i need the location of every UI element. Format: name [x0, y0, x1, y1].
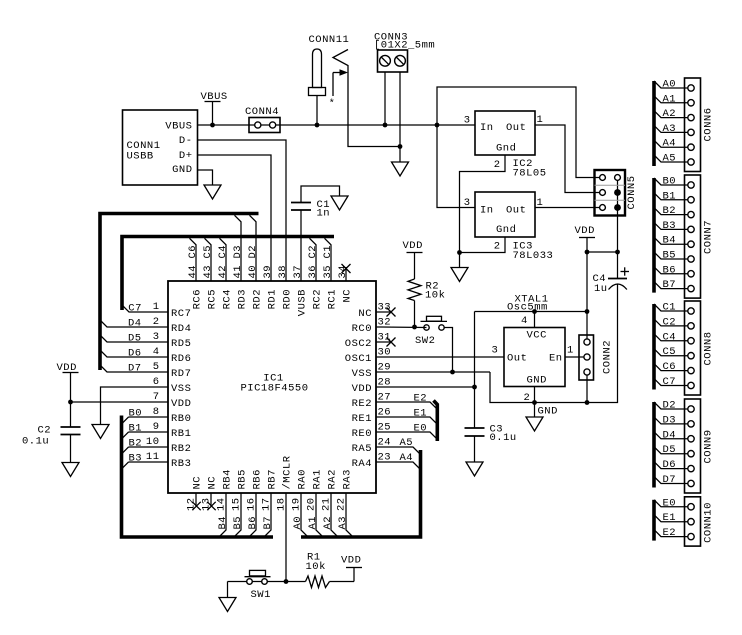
wire IC2 out to CONN5 pin3	[535, 125, 600, 193]
svg-text:B6: B6	[247, 516, 259, 530]
connector CONN10	[654, 497, 715, 546]
svg-text:5: 5	[153, 361, 160, 373]
bus B (thick)	[122, 416, 274, 538]
svg-text:3: 3	[492, 345, 499, 357]
wire/node D4 pin2	[100, 318, 168, 330]
wire/node B2 pin10	[122, 438, 169, 455]
svg-text:42: 42	[217, 265, 229, 279]
ground (CONN3/CONN11)	[392, 162, 409, 176]
wire VBUS to IC3 in	[437, 125, 475, 208]
svg-text:CONN5: CONN5	[626, 175, 638, 209]
power symbol VBUS	[201, 91, 228, 125]
wire VSS pin29	[376, 371, 490, 373]
svg-text:C7: C7	[663, 376, 677, 388]
wire/node A4 pin23	[376, 452, 421, 470]
svg-text:VBUS: VBUS	[165, 121, 192, 133]
svg-text:VDD: VDD	[352, 383, 372, 395]
wire/node B1 pin9	[122, 423, 169, 440]
connector CONN2	[579, 335, 614, 403]
wire VCC rail (XTAL)	[475, 312, 588, 328]
wire/node A3 pin22	[337, 493, 353, 537]
svg-text:1: 1	[567, 345, 574, 357]
svg-text:B3: B3	[129, 453, 143, 465]
junction CONN11 pin	[315, 123, 320, 128]
bus D (thick)	[100, 214, 259, 371]
svg-text:A0: A0	[292, 516, 304, 530]
wire/node E2 pin27	[376, 393, 437, 410]
svg-text:RB3: RB3	[171, 458, 191, 470]
svg-text:OSC2: OSC2	[345, 338, 372, 350]
svg-text:D6: D6	[128, 348, 142, 360]
wire/node B6 pin16	[247, 493, 259, 537]
junction VDD/C4	[585, 250, 620, 255]
wire/node A1 pin20	[307, 493, 323, 537]
svg-text:RB1: RB1	[171, 428, 191, 440]
ground (IC2/IC3)	[451, 268, 468, 282]
svg-text:In: In	[480, 205, 494, 217]
capacitor C3 0.1u	[465, 424, 517, 463]
svg-text:40: 40	[247, 265, 259, 279]
connector CONN11 (power jack)	[309, 34, 401, 147]
svg-text:USBB: USBB	[127, 151, 154, 163]
IC1 bottom pin numbers 12-22	[186, 497, 348, 511]
svg-text:SW2: SW2	[415, 335, 435, 347]
connector CONN3 [01X2_5mm	[374, 32, 435, 147]
svg-text:In: In	[480, 122, 494, 134]
wire to ground (CONN3)	[399, 147, 401, 163]
svg-text:A0: A0	[663, 79, 677, 91]
ground (C3)	[466, 462, 483, 476]
connector CONN8	[654, 301, 715, 395]
wire/node D5 pin3	[100, 333, 168, 345]
svg-text:B1: B1	[129, 423, 143, 435]
microcontroller IC1 PIC18F4550	[168, 281, 376, 493]
svg-text:1n: 1n	[317, 208, 331, 220]
svg-text:B7: B7	[262, 516, 274, 530]
svg-text:A2: A2	[663, 108, 677, 120]
svg-text:Out: Out	[506, 205, 526, 217]
connector CONN4	[245, 106, 280, 133]
IC1 left pin names	[171, 308, 191, 470]
svg-text:1u: 1u	[594, 283, 608, 295]
wire/node C1 (top)	[322, 238, 334, 281]
junction XTAL vcc	[532, 309, 589, 314]
svg-text:*: *	[329, 98, 336, 110]
svg-text:CONN2: CONN2	[602, 340, 614, 374]
wire/node B4 pin14	[217, 493, 229, 537]
svg-text:RB4: RB4	[222, 469, 234, 489]
svg-text:C6: C6	[187, 245, 199, 259]
wire/node E0 pin25	[376, 423, 437, 440]
wire VDD pin7	[71, 401, 169, 403]
power symbol VDD (left)	[57, 362, 79, 402]
svg-text:VCC: VCC	[527, 330, 547, 342]
svg-text:CONN9: CONN9	[703, 429, 715, 463]
svg-text:E1: E1	[414, 408, 428, 420]
svg-text:CONN6: CONN6	[703, 107, 715, 141]
svg-text:B4: B4	[217, 516, 229, 530]
svg-text:RC6: RC6	[192, 289, 204, 309]
svg-text:RD1: RD1	[267, 289, 279, 309]
IC1 top pin numbers 44-34	[187, 265, 349, 279]
wire VBUS to CONN5 pin1	[437, 87, 600, 178]
wire/node C6 (top)	[187, 238, 199, 281]
svg-text:B5: B5	[663, 250, 677, 262]
svg-text:35: 35	[322, 265, 334, 279]
svg-text:78L033: 78L033	[513, 250, 554, 262]
svg-text:OSC1: OSC1	[345, 353, 372, 365]
svg-text:A3: A3	[663, 123, 677, 135]
power symbol VDD (R1)	[341, 555, 362, 568]
svg-text:D5: D5	[128, 333, 142, 345]
junction VDD/C2	[68, 400, 73, 405]
svg-text:Gnd: Gnd	[496, 143, 516, 155]
svg-text:RA5: RA5	[352, 443, 372, 455]
IC1 bottom pin names	[192, 455, 354, 489]
svg-text:VDD: VDD	[575, 225, 595, 237]
wire/node E1 pin26	[376, 408, 437, 425]
svg-text:A1: A1	[663, 93, 677, 105]
wire VDD drop to pin28/C3	[474, 312, 476, 429]
wire CONN1 GND	[198, 170, 213, 185]
switch SW1	[228, 570, 287, 601]
junction CONN3 pin2 / jack switch	[398, 144, 403, 149]
no-connect pin33	[376, 308, 396, 317]
svg-text:D2: D2	[663, 400, 677, 412]
svg-text:VSS: VSS	[352, 368, 372, 380]
svg-text:A3: A3	[337, 516, 349, 530]
ground (SW1)	[219, 598, 236, 612]
junction VBUS feed node	[435, 123, 440, 128]
regulator IC3 78L033	[464, 192, 554, 262]
svg-text:B2: B2	[663, 205, 677, 217]
svg-text:RD4: RD4	[171, 323, 191, 335]
no-connect pin34	[342, 264, 351, 281]
svg-text:En: En	[549, 353, 563, 365]
svg-text:2: 2	[494, 159, 501, 171]
wire VDD pin28	[376, 386, 475, 388]
capacitor C2 0.1u	[22, 402, 81, 463]
svg-text:A5: A5	[400, 437, 414, 449]
svg-text:C5: C5	[663, 346, 677, 358]
svg-text:Gnd: Gnd	[496, 224, 516, 236]
svg-text:4: 4	[153, 346, 160, 358]
svg-text:B7: B7	[663, 279, 677, 291]
svg-text:RE0: RE0	[352, 428, 372, 440]
svg-text:1: 1	[537, 114, 544, 126]
svg-text:RA4: RA4	[352, 458, 372, 470]
svg-text:A5: A5	[663, 153, 677, 165]
svg-text:3: 3	[153, 331, 160, 343]
no-connect pin12	[192, 493, 200, 510]
svg-text:GND: GND	[527, 375, 547, 387]
svg-text:B6: B6	[663, 264, 677, 276]
svg-text:B4: B4	[663, 235, 677, 247]
svg-text:E2: E2	[414, 393, 428, 405]
IC1 top pin names	[192, 289, 354, 316]
svg-text:B1: B1	[663, 190, 677, 202]
wire VDD to C4	[587, 251, 618, 253]
svg-text:A4: A4	[663, 138, 677, 150]
svg-text:VDD: VDD	[403, 240, 423, 252]
resistor R2 10k	[408, 279, 445, 327]
bus E (thick)	[434, 401, 438, 442]
svg-text:CONN4: CONN4	[245, 106, 279, 118]
wire/node D2 (top)	[247, 215, 259, 281]
svg-text:C4: C4	[217, 245, 229, 259]
svg-text:11: 11	[146, 451, 160, 463]
junction CONN3 pin1	[383, 123, 388, 128]
svg-text:CONN8: CONN8	[703, 331, 715, 365]
wire/node D7 pin5	[100, 363, 168, 375]
svg-text:RC7: RC7	[171, 308, 191, 320]
svg-text:VDD: VDD	[341, 555, 361, 567]
svg-text:2: 2	[524, 392, 531, 404]
bus A (thick)	[301, 450, 421, 537]
capacitor C1 1n (VUSB)	[291, 186, 340, 281]
connector CONN5	[595, 170, 639, 279]
bus D (thick)	[652, 402, 656, 488]
wire/node D6 pin4	[100, 348, 168, 360]
svg-text:CONN11: CONN11	[309, 34, 350, 46]
capacitor C4 1u (polarized)	[593, 267, 630, 295]
wire VBUS rail	[198, 124, 476, 126]
svg-text:E1: E1	[663, 512, 677, 524]
svg-text:2: 2	[494, 241, 501, 253]
svg-text:NC: NC	[192, 476, 204, 490]
junction R2/RC0	[412, 325, 417, 330]
svg-text:C2: C2	[663, 316, 677, 328]
svg-text:C4: C4	[663, 331, 677, 343]
svg-text:RB0: RB0	[171, 413, 191, 425]
svg-text:9: 9	[153, 421, 160, 433]
svg-text:78L05: 78L05	[513, 168, 547, 180]
svg-text:A1: A1	[307, 516, 319, 530]
svg-text:D2: D2	[247, 245, 259, 259]
ground (VSS pin6)	[92, 425, 109, 439]
regulator IC2 78L05	[464, 111, 547, 180]
svg-text:0.1u: 0.1u	[490, 432, 517, 444]
svg-text:8: 8	[153, 406, 160, 418]
svg-text:RD2: RD2	[252, 289, 264, 309]
IC1 right pin names	[345, 308, 372, 470]
svg-text:SW1: SW1	[251, 589, 271, 601]
wire /MCLR pin18	[285, 493, 287, 582]
svg-text:10: 10	[146, 436, 160, 448]
svg-text:C1: C1	[663, 302, 677, 314]
junction VDD pin28	[472, 385, 477, 390]
svg-text:D3: D3	[663, 414, 677, 426]
bus C (thick)	[122, 237, 334, 311]
svg-text:10k: 10k	[425, 290, 445, 302]
ground (C2)	[62, 463, 79, 477]
svg-text:RC1: RC1	[327, 289, 339, 309]
wire D-	[198, 140, 287, 281]
svg-text:A2: A2	[322, 516, 334, 530]
IC1 left pin numbers 1-11	[146, 301, 160, 463]
connector CONN6	[654, 78, 715, 172]
svg-text:RA1: RA1	[312, 469, 324, 489]
svg-text:D7: D7	[128, 363, 142, 375]
svg-text:C6: C6	[663, 361, 677, 373]
junction XTAL pin2	[532, 400, 537, 405]
wire/node B0 pin8	[122, 408, 169, 425]
resistor R1 10k	[286, 552, 354, 588]
svg-text:RC5: RC5	[207, 289, 219, 309]
svg-text:Out: Out	[507, 353, 527, 365]
wire XTAL en to CONN2	[565, 356, 587, 358]
svg-text:RE2: RE2	[352, 398, 372, 410]
switch SW2	[415, 316, 453, 372]
wire/node B3 pin11	[122, 453, 169, 470]
svg-text:B0: B0	[129, 408, 143, 420]
wire/node B7 pin17	[262, 493, 274, 537]
svg-text:43: 43	[202, 265, 214, 279]
svg-text:VSS: VSS	[171, 383, 191, 395]
svg-text:NC: NC	[358, 308, 372, 320]
connector CONN1 USBB	[123, 110, 198, 185]
svg-text:RB6: RB6	[252, 469, 264, 489]
svg-text:E0: E0	[414, 423, 428, 435]
no-connect pin31 OSC2	[376, 338, 396, 347]
connector CONN7	[654, 175, 715, 298]
svg-text:C1: C1	[322, 245, 334, 259]
wire/node C7 pin1	[122, 303, 168, 315]
svg-text:10k: 10k	[306, 561, 326, 573]
svg-text:6: 6	[153, 376, 160, 388]
svg-text:D+: D+	[179, 150, 193, 162]
junction SW2 gnd/VSS	[450, 370, 455, 375]
wire IC3 gnd	[460, 237, 506, 253]
connector CONN9	[654, 399, 715, 493]
wire/node B5 pin15	[232, 493, 244, 537]
svg-text:RD7: RD7	[171, 368, 191, 380]
svg-text:D4: D4	[128, 318, 142, 330]
svg-text:0.1u: 0.1u	[22, 436, 49, 448]
wire XTAL gnd pin2	[534, 387, 536, 418]
svg-text:E2: E2	[663, 527, 677, 539]
svg-text:D7: D7	[663, 474, 677, 486]
svg-text:44: 44	[187, 265, 199, 279]
svg-text:RD0: RD0	[282, 289, 294, 309]
svg-text:GND: GND	[538, 406, 558, 418]
svg-text:NC: NC	[342, 289, 354, 303]
wire/node C4 (top)	[217, 238, 229, 281]
svg-text:RB7: RB7	[267, 469, 279, 489]
svg-text:RB2: RB2	[171, 443, 191, 455]
wire C4 to gnd rail	[490, 285, 618, 403]
wire/node A2 pin21	[322, 493, 338, 537]
svg-text:7: 7	[153, 391, 160, 403]
svg-text:B5: B5	[232, 516, 244, 530]
label GND net	[538, 406, 558, 418]
bus B (thick)	[652, 178, 656, 293]
svg-text:4: 4	[521, 315, 528, 327]
svg-text:RA2: RA2	[327, 469, 339, 489]
wire/node A5 pin24	[376, 437, 421, 455]
svg-text:E0: E0	[663, 497, 677, 509]
power symbol VDD (R2)	[403, 240, 423, 279]
svg-text:VDD: VDD	[171, 398, 191, 410]
svg-text:RC2: RC2	[312, 289, 324, 309]
no-connect pin13	[207, 493, 215, 510]
svg-text:B3: B3	[663, 220, 677, 232]
ground (CONN1)	[204, 185, 221, 199]
svg-text:RD3: RD3	[237, 289, 249, 309]
junction MCLR/SW1/R1	[284, 579, 289, 584]
svg-text:C7: C7	[128, 303, 142, 315]
svg-text:PIC18F4550: PIC18F4550	[240, 383, 308, 395]
svg-text:RB5: RB5	[237, 469, 249, 489]
wire IC2 gnd	[460, 155, 506, 268]
bus E (thick)	[652, 500, 656, 541]
svg-text:41: 41	[232, 265, 244, 279]
svg-text:36: 36	[307, 265, 319, 279]
wire RC0 pin32 to SW2	[376, 326, 427, 329]
wire OSC1 pin30 to XTAL out	[376, 356, 504, 358]
svg-text:D5: D5	[663, 444, 677, 456]
svg-text:1: 1	[153, 301, 160, 313]
svg-text:38: 38	[277, 265, 289, 279]
power symbol VDD (CONN5 area)	[575, 225, 596, 342]
svg-text:2: 2	[153, 316, 160, 328]
svg-text:Out: Out	[506, 122, 526, 134]
oscillator XTAL1 Osc5mm	[492, 294, 574, 405]
ground (XTAL area)	[526, 417, 543, 431]
svg-text:C2: C2	[307, 245, 319, 259]
svg-text:RD6: RD6	[171, 353, 191, 365]
svg-text:CONN10: CONN10	[703, 502, 715, 543]
ground (C1)	[331, 196, 348, 210]
svg-text:B2: B2	[129, 438, 143, 450]
wire/node D3 (top)	[232, 215, 244, 281]
junction VBUS	[210, 123, 215, 128]
svg-text:D-: D-	[179, 135, 193, 147]
junction regulators gnd	[457, 250, 462, 255]
svg-text:3: 3	[464, 115, 471, 127]
wire D+	[198, 155, 272, 281]
svg-text:RA3: RA3	[342, 469, 354, 489]
wire/node A0 pin19	[292, 493, 308, 537]
IC1 right pin numbers 33-23	[378, 302, 392, 464]
svg-text:RC4: RC4	[222, 289, 234, 309]
bus C (thick)	[652, 304, 656, 390]
svg-text:GND: GND	[172, 164, 192, 176]
svg-text:RD5: RD5	[171, 338, 191, 350]
svg-text:B0: B0	[663, 176, 677, 188]
svg-text:VUSB: VUSB	[297, 289, 309, 316]
svg-text:RE1: RE1	[352, 413, 372, 425]
svg-text:/MCLR: /MCLR	[282, 455, 294, 489]
wire VSS pin6 to ground	[101, 387, 169, 425]
svg-text:A4: A4	[400, 452, 414, 464]
svg-text:D3: D3	[232, 245, 244, 259]
bus A (thick)	[652, 81, 656, 166]
svg-text:CONN7: CONN7	[703, 220, 715, 254]
junction CONN2 gnd	[585, 400, 590, 405]
svg-text:37: 37	[292, 265, 304, 279]
svg-text:C5: C5	[202, 245, 214, 259]
svg-text:D4: D4	[663, 429, 677, 441]
svg-text:NC: NC	[207, 476, 219, 490]
svg-text:39: 39	[262, 265, 274, 279]
svg-text:RA0: RA0	[297, 469, 309, 489]
wire IC3 out to CONN5 pin5	[535, 207, 600, 209]
wire/node C2 (top)	[307, 238, 319, 281]
svg-text:D6: D6	[663, 459, 677, 471]
svg-text:RC0: RC0	[352, 323, 372, 335]
wire/node C5 (top)	[202, 238, 214, 281]
